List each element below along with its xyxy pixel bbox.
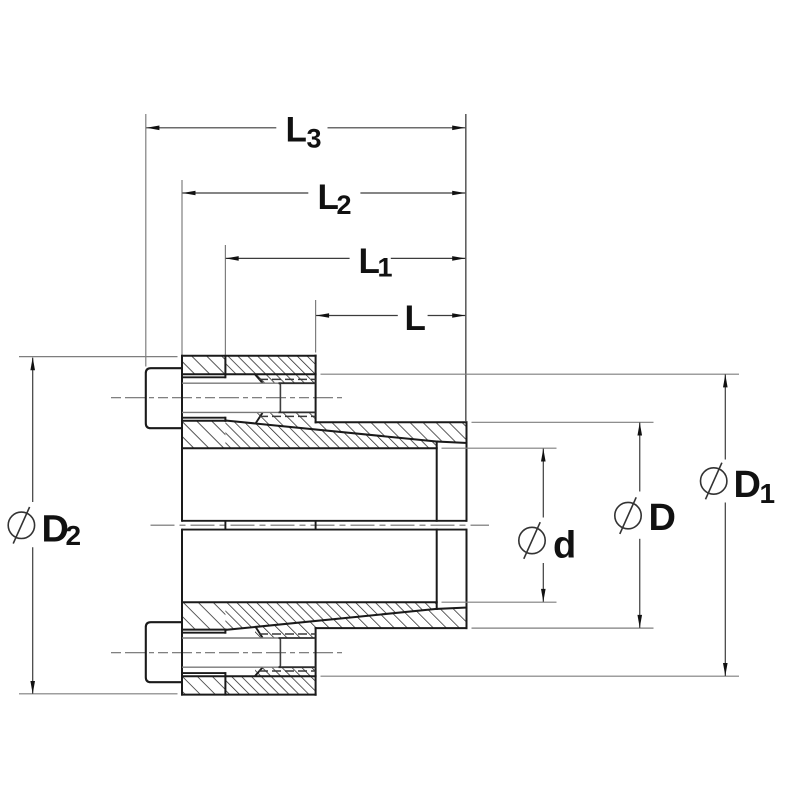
thread chamfer bottom screw lower — [255, 668, 263, 677]
line C top — [182, 417, 225, 419]
bore surface top — [182, 447, 437, 449]
dimension D2 — [32, 358, 34, 502]
extension line L3 left — [145, 114, 147, 367]
hatch front ring top — [182, 356, 225, 374]
dimension D1 — [724, 374, 726, 459]
svg-text:2: 2 — [66, 520, 82, 551]
left face vertical — [181, 356, 183, 521]
hatch outer sleeve top — [255, 412, 467, 443]
label diameter d — [519, 527, 545, 553]
hatch flange ring bottom — [225, 667, 315, 694]
screw shank lines bottom — [182, 666, 279, 668]
svg-text:d: d — [553, 525, 576, 567]
right face bottom — [466, 530, 468, 629]
extension line right shared — [465, 114, 467, 421]
screw head bottom — [146, 622, 182, 682]
hatch inner sleeve wedge top — [225, 421, 436, 449]
clearance hole line A top — [182, 373, 316, 375]
dimension L1 — [226, 257, 350, 259]
svg-text:D: D — [649, 497, 676, 539]
extension D bottom — [472, 627, 654, 629]
main centerline — [151, 524, 490, 526]
dimension L — [316, 315, 398, 317]
svg-text:L: L — [286, 110, 307, 149]
extension line L left — [315, 300, 317, 353]
line B top — [182, 376, 225, 378]
rear face vertical bottom — [315, 628, 317, 695]
L1 face verticals — [224, 356, 226, 378]
extension D2 bottom — [19, 693, 178, 695]
band tick x2 — [315, 521, 317, 530]
label diameter D — [615, 502, 641, 528]
dimension L3 — [146, 127, 276, 129]
label diameter D1 — [701, 468, 727, 494]
taper line top — [225, 421, 436, 442]
svg-text:L: L — [405, 299, 426, 338]
thread chamfer top screw lower — [256, 413, 263, 424]
thread chamfer bottom screw upper — [256, 627, 263, 638]
band tick x1 — [224, 521, 226, 530]
center band bottom line — [182, 529, 467, 531]
flange bottom edge — [182, 694, 316, 696]
sleeve inner surface bottom right — [437, 608, 467, 609]
right face top — [466, 422, 468, 521]
hatch inner sleeve wedge bottom — [225, 602, 436, 630]
outer sleeve bottom edge — [316, 627, 467, 629]
extension D2 top — [19, 356, 178, 358]
line D top — [182, 420, 225, 422]
tapped hole minor diameter top screw — [279, 382, 316, 384]
extension D1 top — [321, 373, 740, 375]
extension d bottom — [442, 601, 557, 603]
thread chamfer top screw upper — [255, 374, 263, 383]
svg-text:2: 2 — [337, 190, 352, 220]
screw centerline bottom — [111, 652, 343, 654]
svg-text:D: D — [734, 464, 761, 506]
inner sleeve right face top — [436, 442, 438, 521]
hatch front ring lower (bottom half) — [182, 602, 225, 629]
inner sleeve right face bottom — [436, 530, 438, 609]
svg-text:1: 1 — [760, 478, 776, 509]
hatch outer sleeve bottom — [255, 608, 467, 639]
bore surface bottom — [182, 601, 437, 603]
dimension d — [542, 449, 544, 518]
line C bottom — [182, 632, 225, 634]
hatch front ring lower (top half) — [182, 421, 225, 448]
extension D1 bottom — [321, 675, 740, 677]
screw tip top — [279, 383, 281, 412]
outer sleeve top edge — [316, 421, 467, 423]
svg-text:1: 1 — [378, 253, 393, 283]
taper line bottom — [225, 609, 436, 630]
extension line L2 left — [181, 180, 183, 355]
tapped hole minor diameter bottom screw — [279, 666, 316, 668]
screw shank lines top — [182, 382, 279, 384]
center band top line — [182, 520, 467, 522]
screw tip bottom — [279, 638, 281, 667]
screw head top — [146, 368, 182, 428]
dimension D — [639, 423, 641, 492]
line B bottom — [182, 672, 225, 674]
extension line L1 left — [224, 245, 226, 355]
thread dashed lines top screw — [259, 378, 316, 380]
sleeve inner surface top right — [437, 442, 467, 443]
label diameter D2 — [8, 512, 34, 538]
thread dashed lines bottom screw — [259, 670, 316, 672]
extension D top — [472, 421, 654, 423]
hatch flange ring top — [225, 356, 315, 383]
rear face vertical top — [315, 356, 317, 423]
hatch front ring bottom — [182, 676, 225, 694]
dimension L2 — [182, 192, 308, 194]
screw centerline top — [111, 397, 343, 399]
extension d top — [442, 447, 557, 449]
line D bottom — [182, 629, 225, 631]
flange top edge — [182, 355, 316, 357]
svg-text:3: 3 — [307, 124, 322, 154]
clearance hole line A bottom — [182, 675, 316, 677]
